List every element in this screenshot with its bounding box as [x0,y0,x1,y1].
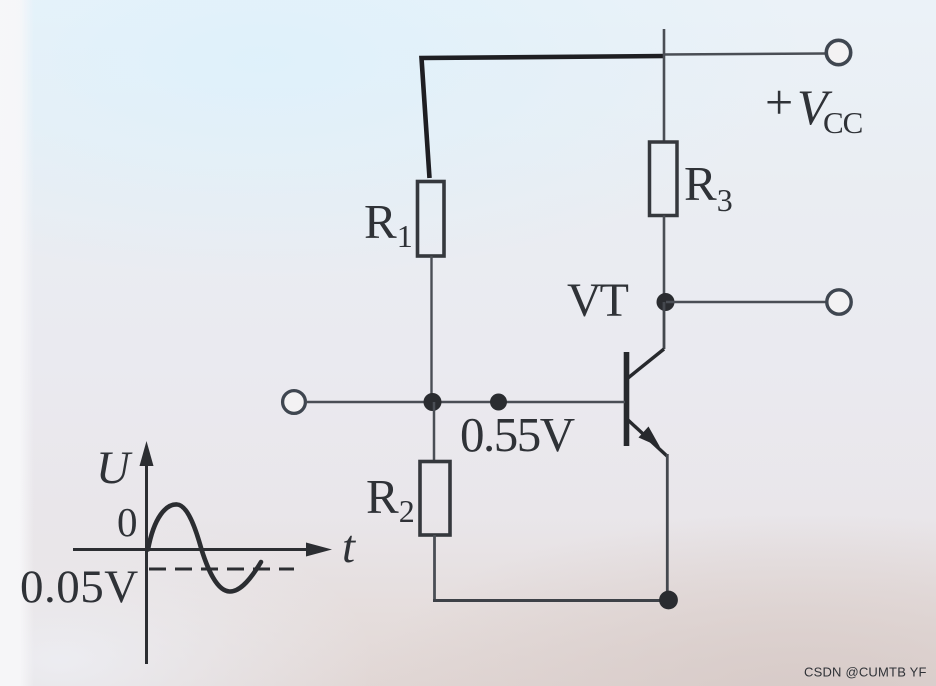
node emitter-bottom junction [659,591,678,610]
wire base from input terminal to transistor [306,401,626,404]
svg-text:0.05V: 0.05V [20,561,139,613]
sine wave [148,504,261,591]
svg-text:VT: VT [567,274,629,327]
resistor R3 [650,142,678,216]
resistor R2 [420,462,450,536]
svg-text:R1: R1 [364,194,413,254]
wire collector vertical [663,302,666,349]
wire R3 top vertical [663,29,666,143]
svg-text:t: t [342,521,356,573]
svg-text:+: + [765,74,793,130]
svg-text:R3: R3 [684,156,733,218]
wire node to R2 top [433,402,436,462]
wire emitter vertical [666,454,669,600]
dashed level -0.05V [149,568,294,571]
wire R1 bottom to base node [430,256,432,402]
svg-text:0.55V: 0.55V [460,407,575,462]
svg-text:U: U [96,442,133,494]
wire top right to +Vcc terminal [663,54,826,55]
node collector-output junction [657,293,675,311]
terminal output [827,290,851,314]
svg-text:CC: CC [823,105,862,140]
node 0.55V point [490,394,507,411]
wire top thick black from R1 up and across [422,56,666,178]
wire bottom horizontal [433,599,668,602]
axis t horizontal with arrow [73,548,312,551]
terminal input [283,391,306,414]
svg-text:0: 0 [117,499,138,545]
node base-R1-R2 junction [424,393,442,411]
resistor R1 [418,182,445,257]
terminal +Vcc [826,40,850,64]
wire collector node to output terminal [666,301,826,304]
transistor VT [627,349,668,456]
axis U vertical with arrow [145,450,148,664]
wire R2 bottom down [433,535,436,601]
svg-text:CSDN @CUMTB YF: CSDN @CUMTB YF [804,665,927,680]
wire R3 bottom to collector node [663,216,666,303]
svg-text:R2: R2 [366,469,415,529]
